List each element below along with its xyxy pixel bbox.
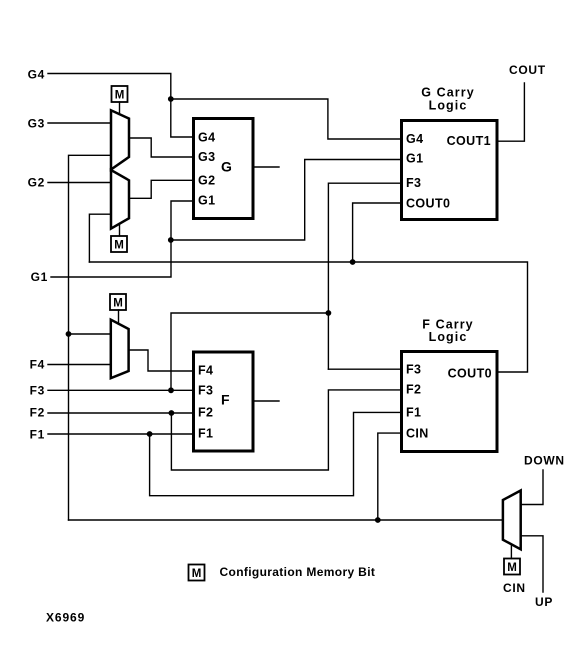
svg-text:F1: F1 — [198, 427, 213, 441]
svg-text:F2: F2 — [30, 406, 45, 420]
node F3 junction left — [168, 387, 174, 393]
svg-text:G1: G1 — [406, 152, 423, 166]
svg-text:F1: F1 — [30, 428, 45, 442]
svg-text:COUT0: COUT0 — [406, 197, 450, 211]
wire top G mux output to G block G3 — [129, 138, 194, 157]
node COUT0 junction — [350, 259, 356, 265]
svg-text:CIN: CIN — [406, 427, 429, 441]
wire bottom G mux to M — [119, 224, 121, 237]
node G1 junction — [168, 237, 174, 243]
svg-text:COUT: COUT — [509, 63, 546, 77]
svg-text:G1: G1 — [31, 270, 48, 284]
svg-text:G Carry: G Carry — [421, 86, 475, 100]
svg-text:DOWN: DOWN — [524, 454, 565, 468]
svg-text:M: M — [114, 240, 124, 252]
F carry logic block — [402, 318, 498, 452]
svg-text:M: M — [113, 298, 123, 310]
wire bottom G mux output to G block G2 — [129, 180, 194, 198]
svg-text:CIN: CIN — [503, 581, 526, 595]
svg-text:Configuration Memory Bit: Configuration Memory Bit — [220, 565, 376, 579]
svg-text:F: F — [221, 392, 230, 408]
wire G4 net — [48, 74, 402, 140]
svg-text:G3: G3 — [28, 117, 45, 131]
M box top G mux — [112, 86, 128, 102]
wire M to top G mux — [119, 102, 121, 115]
svg-text:F3: F3 — [406, 176, 421, 190]
wire COUT1 to COUT — [497, 83, 524, 141]
svg-text:M: M — [192, 568, 202, 580]
wire COUT0 net — [89, 203, 527, 372]
svg-text:COUT0: COUT0 — [448, 367, 492, 381]
node CIN junction — [375, 517, 381, 523]
svg-text:X6969: X6969 — [46, 611, 85, 625]
svg-text:COUT1: COUT1 — [447, 134, 491, 148]
svg-text:F2: F2 — [198, 406, 213, 420]
node G4 junction — [168, 96, 174, 102]
wire F4 input to F mux — [48, 364, 111, 366]
wire COUT0 riser to bottom G mux — [89, 214, 110, 262]
node F2 junction — [169, 410, 175, 416]
wire G3 input to top G mux — [48, 122, 111, 124]
svg-text:F2: F2 — [406, 383, 421, 397]
svg-text:Logic: Logic — [429, 330, 468, 344]
wire CIN mux to M — [510, 545, 512, 559]
wire CIN net riser to top G mux — [69, 155, 111, 520]
wire F mux output to F block F4 — [129, 350, 194, 371]
F block — [194, 352, 254, 451]
G block — [194, 119, 254, 219]
mux CIN — [503, 491, 521, 550]
M box CIN mux — [504, 559, 520, 575]
wire M to F mux — [118, 310, 120, 324]
M box F mux — [110, 294, 126, 310]
svg-text:G3: G3 — [198, 150, 215, 164]
wire F block output stub — [253, 400, 279, 402]
svg-text:F4: F4 — [30, 358, 45, 372]
wire UP input — [521, 536, 543, 592]
G carry logic block — [402, 86, 498, 220]
svg-text:M: M — [115, 90, 125, 102]
svg-text:UP: UP — [535, 595, 553, 609]
M box bottom G mux — [111, 236, 127, 252]
node CIN-Fmux junction — [66, 331, 72, 337]
svg-text:Logic: Logic — [429, 99, 468, 113]
wire CIN net — [69, 334, 503, 520]
svg-text:F1: F1 — [406, 406, 421, 420]
wire G block output stub — [253, 166, 279, 168]
svg-text:F3: F3 — [30, 384, 45, 398]
legend M box — [189, 565, 205, 581]
wire F1 net — [48, 412, 402, 495]
wire G2 input to bottom G mux — [48, 182, 111, 184]
wire F2 net — [48, 390, 402, 470]
wire G1 net — [51, 160, 402, 278]
svg-text:G4: G4 — [28, 68, 45, 82]
svg-text:G: G — [221, 159, 232, 175]
svg-text:G1: G1 — [198, 194, 215, 208]
node F3 junction right — [326, 310, 332, 316]
mux G top — [111, 110, 129, 169]
svg-text:G2: G2 — [28, 176, 45, 190]
wire DOWN input — [521, 470, 543, 505]
svg-text:F3: F3 — [198, 384, 213, 398]
svg-text:G2: G2 — [198, 174, 215, 188]
svg-text:M: M — [507, 562, 517, 574]
svg-text:F3: F3 — [406, 363, 421, 377]
svg-text:G4: G4 — [198, 131, 215, 145]
svg-text:G4: G4 — [406, 132, 423, 146]
node F1 junction — [147, 431, 153, 437]
wire F3 net — [48, 183, 402, 390]
svg-text:F4: F4 — [198, 364, 213, 378]
mux F — [111, 320, 129, 379]
mux G bottom — [111, 170, 129, 229]
